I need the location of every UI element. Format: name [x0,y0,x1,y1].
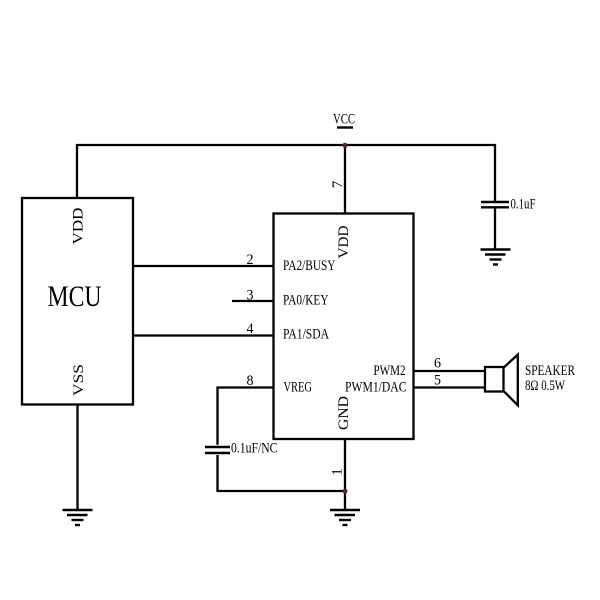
svg-text:0.1uF/NC: 0.1uF/NC [231,441,278,457]
svg-text:3: 3 [247,288,254,304]
svg-text:8: 8 [247,373,254,389]
svg-text:PA2/BUSY: PA2/BUSY [283,258,336,274]
svg-text:0.1uF: 0.1uF [511,197,536,213]
svg-text:GND: GND [336,396,352,430]
svg-text:VDD: VDD [336,225,352,258]
svg-text:PWM2: PWM2 [374,363,406,379]
svg-text:8Ω 0.5W: 8Ω 0.5W [525,378,566,394]
svg-text:VREG: VREG [284,380,313,396]
svg-text:VSS: VSS [71,364,87,396]
svg-text:4: 4 [247,321,254,337]
svg-text:PWM1/DAC: PWM1/DAC [345,380,407,396]
svg-text:7: 7 [330,180,346,188]
svg-text:PA1/SDA: PA1/SDA [283,327,329,343]
svg-text:MCU: MCU [48,280,102,313]
svg-text:VDD: VDD [71,207,87,244]
svg-text:1: 1 [330,468,346,476]
svg-text:6: 6 [434,356,441,372]
svg-text:SPEAKER: SPEAKER [525,363,575,379]
svg-text:VCC: VCC [333,112,355,128]
svg-text:PA0/KEY: PA0/KEY [283,293,329,309]
svg-text:2: 2 [247,252,254,268]
svg-text:5: 5 [434,373,441,389]
